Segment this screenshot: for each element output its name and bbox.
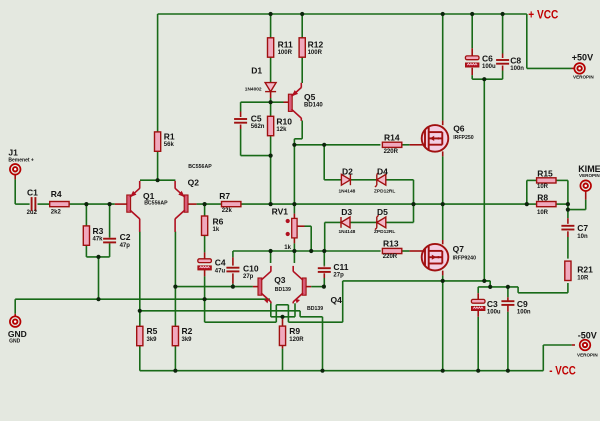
- svg-text:BD139: BD139: [307, 306, 323, 312]
- svg-text:100n: 100n: [510, 66, 524, 72]
- junction C5/R10: [269, 154, 273, 158]
- wire R3 bottom: [85, 245, 87, 257]
- wire -VCC rail: [140, 370, 544, 372]
- pin C9 top: [507, 297, 509, 301]
- svg-text:R11: R11: [278, 40, 293, 50]
- transistor Q3: [258, 266, 271, 304]
- wire to C2: [109, 204, 111, 238]
- svg-text:100n: 100n: [517, 310, 531, 316]
- wire +VCC to +50V: [526, 14, 528, 68]
- svg-text:10R: 10R: [537, 184, 549, 190]
- pin C6 bottom: [471, 68, 473, 75]
- wire Q1 collector / R5 column: [139, 232, 141, 328]
- pin C4 top: [204, 252, 206, 258]
- wire KIMENET up: [585, 200, 587, 210]
- wire R15-R8 left: [526, 180, 528, 204]
- resistor R8: [537, 202, 556, 207]
- capacitor C2: [103, 239, 116, 243]
- connector -50V (VEROPIN): [580, 340, 591, 351]
- wire C10 to base row: [232, 284, 234, 287]
- pin RV1 bottom: [293, 238, 295, 244]
- pin C10 top: [232, 257, 234, 265]
- wire to ground row: [98, 257, 100, 299]
- pin Q3 base: [253, 286, 258, 288]
- transistor Q5 (BD140): [288, 83, 301, 121]
- wire Q4 emitter down: [294, 303, 296, 317]
- connector J1 (VEROPIN): [10, 164, 21, 175]
- wire up to source row: [342, 281, 344, 322]
- svg-text:47p: 47p: [120, 243, 131, 249]
- pin C11 top: [323, 265, 325, 268]
- junction C3/-VCC: [476, 369, 480, 373]
- wire jog down: [489, 281, 491, 287]
- resistor R3: [83, 226, 89, 245]
- wire to R6: [204, 204, 206, 216]
- svg-text:C10: C10: [243, 264, 259, 274]
- wire jog: [517, 287, 519, 293]
- svg-text:C3: C3: [487, 299, 498, 309]
- pin KIMENET: [585, 191, 587, 200]
- junction ground/R3C2: [96, 297, 100, 301]
- pin Q6 drain: [442, 121, 444, 126]
- svg-text:R14: R14: [384, 132, 400, 142]
- wire down to -VCC row: [322, 317, 324, 371]
- wire C11 to Q4 base: [323, 278, 325, 287]
- svg-text:Q7: Q7: [453, 244, 465, 254]
- resistor R7: [222, 202, 241, 207]
- svg-text:3k9: 3k9: [182, 337, 193, 343]
- wire R6 to C4: [204, 235, 206, 252]
- junction R2/-VCC: [173, 369, 177, 373]
- svg-text:RV1: RV1: [272, 207, 289, 217]
- wire D2 to D4: [350, 179, 377, 181]
- capacitor C10: [226, 268, 239, 272]
- wire D5 to vertical: [386, 221, 414, 223]
- junction gate row D2 branch: [322, 143, 326, 147]
- pin -50V: [572, 344, 575, 346]
- wire C7 to R21: [567, 237, 569, 259]
- wire J1 down: [14, 179, 16, 204]
- diode D3: [341, 217, 350, 228]
- resistor R5: [137, 326, 143, 345]
- junction Q4 collector row: [292, 249, 296, 253]
- wire C6-C8 bottom: [472, 78, 502, 80]
- wire C5 bottom: [240, 129, 242, 156]
- svg-text:GND: GND: [8, 329, 27, 339]
- wire node A to R10: [270, 102, 272, 116]
- wire to +50V pin: [527, 67, 572, 69]
- wire Q3 base row: [175, 286, 253, 288]
- svg-text:220R: 220R: [384, 149, 399, 155]
- svg-text:1k: 1k: [213, 227, 220, 233]
- wire R11 to D1: [270, 57, 272, 82]
- svg-text:R21: R21: [577, 265, 593, 275]
- resistor R6: [202, 216, 208, 235]
- capacitor C6 (electrolytic): [465, 56, 479, 67]
- junction Q3 collector row: [269, 249, 273, 253]
- junction Q6 drain/+VCC: [441, 12, 445, 16]
- capacitor C8: [496, 60, 509, 64]
- wire hop leg right: [287, 305, 289, 322]
- wire C8 bottom: [502, 71, 504, 80]
- svg-text:R4: R4: [51, 189, 62, 199]
- wire to C11: [323, 251, 325, 266]
- wire D3 cathode stub: [325, 221, 342, 223]
- pin J1: [14, 175, 16, 179]
- pin C8 bottom: [502, 66, 504, 71]
- svg-text:R15: R15: [537, 168, 553, 178]
- wire Q2 base to R7: [197, 203, 222, 205]
- junction R1 tail: [156, 178, 160, 182]
- junction wiper: [309, 249, 313, 253]
- wire R21 bottom up: [567, 283, 569, 293]
- wire C3/C9 row: [478, 286, 518, 288]
- transistor Q6 (IRFP250): [422, 125, 449, 152]
- pin Q6 gate: [410, 144, 423, 146]
- connector +50V (VEROPIN): [574, 63, 585, 74]
- pin RV1 top: [293, 214, 295, 219]
- capacitor C3 (electrolytic): [471, 299, 485, 310]
- connector GND (VEROPIN): [10, 316, 21, 327]
- wire Q7 source down: [442, 275, 444, 281]
- wire lower ground row right: [288, 321, 342, 323]
- svg-text:C9: C9: [517, 299, 528, 309]
- svg-text:R6: R6: [213, 216, 224, 226]
- svg-text:R8: R8: [537, 193, 548, 203]
- svg-text:3k9: 3k9: [147, 337, 158, 343]
- wire R10 to junction: [270, 136, 272, 156]
- svg-text:D1: D1: [251, 66, 262, 76]
- transistor Q1 (BC556AP): [127, 181, 140, 232]
- wire +VCC to R11: [270, 14, 272, 38]
- svg-text:BD139: BD139: [275, 287, 291, 293]
- junction Q7 source row: [441, 279, 445, 283]
- svg-text:1N4002: 1N4002: [245, 86, 262, 92]
- svg-text:+ VCC: + VCC: [528, 10, 558, 22]
- wire C2 bottom: [109, 243, 111, 257]
- wire -VCC to -50V: [542, 345, 544, 371]
- wire wiper down: [310, 226, 312, 251]
- wire D3 branch down: [324, 222, 326, 251]
- wire output row to RV1: [293, 204, 295, 214]
- junction C3 row: [488, 285, 492, 289]
- wire RV1 bottom to row: [293, 243, 295, 251]
- resistor R12: [299, 38, 305, 57]
- svg-text:-50V: -50V: [578, 330, 597, 340]
- svg-text:R13: R13: [383, 238, 399, 248]
- transistor Q7 (IRFP9240): [422, 244, 449, 271]
- wire output row: [241, 203, 527, 205]
- wire right column: [567, 180, 569, 218]
- junction R10 column/output: [269, 202, 273, 206]
- wire +VCC to R12: [301, 14, 303, 38]
- svg-text:27p: 27p: [243, 274, 254, 280]
- capacitor C5: [234, 119, 247, 123]
- svg-text:ZPD12RL: ZPD12RL: [374, 229, 395, 235]
- wire R12 to Q5 emitter: [301, 57, 303, 83]
- wire R4 to Q1 base: [68, 203, 115, 205]
- wire Q5 collector jog: [294, 138, 302, 140]
- resistor R1: [155, 132, 161, 151]
- svg-text:Q5: Q5: [304, 92, 316, 102]
- svg-text:J1: J1: [8, 148, 18, 158]
- diode D2: [341, 174, 350, 185]
- pin C10 bottom: [232, 273, 234, 283]
- resistor R13: [382, 248, 401, 253]
- wire R13 to Q7 gate: [402, 250, 410, 252]
- wire ground down: [204, 299, 206, 322]
- pin Q5 base: [284, 101, 289, 103]
- transistor Q4: [293, 266, 306, 304]
- svg-text:R9: R9: [289, 326, 300, 336]
- junction C11/D3: [322, 249, 326, 253]
- wire R3-C2 join: [86, 256, 109, 258]
- pin C7 bottom: [567, 231, 569, 237]
- wire to D2 anode: [324, 179, 342, 181]
- resistor R14: [382, 142, 401, 147]
- junction C6-C8 mid: [482, 77, 486, 81]
- wire Q3 emitter down: [270, 303, 272, 317]
- svg-text:D3: D3: [341, 207, 352, 217]
- wire jog down to gate row: [293, 139, 295, 145]
- wire Q1-Q2 emitters tail: [140, 179, 175, 181]
- junction RV1/output: [292, 202, 296, 206]
- wire Q4 base row: [311, 286, 324, 288]
- capacitor C4 (electrolytic): [198, 259, 212, 270]
- pin Q7 drain: [442, 240, 444, 244]
- wire hop top: [276, 304, 288, 306]
- diode D5: [375, 215, 386, 229]
- wire gate node to output row: [293, 145, 295, 204]
- connector KIMENET (VEROPIN): [580, 180, 591, 191]
- svg-text:1N4148: 1N4148: [339, 229, 356, 235]
- wire to R21 bottom: [518, 292, 568, 294]
- svg-text:1k: 1k: [284, 245, 291, 251]
- wire D3 to D5: [350, 221, 377, 223]
- svg-text:10R: 10R: [537, 210, 549, 216]
- junction C11/Q4 base: [322, 285, 326, 289]
- wire R8 right stub: [556, 203, 568, 205]
- svg-text:Q3: Q3: [274, 275, 286, 285]
- svg-text:R12: R12: [308, 40, 324, 50]
- pin Q6 source: [442, 151, 444, 156]
- svg-text:IRFP250: IRFP250: [453, 135, 474, 141]
- wire R15 left stub: [527, 179, 537, 181]
- svg-text:BC556AP: BC556AP: [188, 164, 212, 170]
- svg-text:R2: R2: [182, 326, 193, 336]
- wire gate drive row upper: [294, 144, 380, 146]
- wire wiper: [305, 225, 312, 227]
- wire +VCC to Q6 drain: [442, 14, 444, 121]
- resistor R21: [565, 261, 571, 280]
- resistor R2: [172, 326, 178, 345]
- wire +VCC to R1: [157, 14, 159, 132]
- junction R6: [203, 202, 207, 206]
- wire Q6 source to output: [442, 156, 444, 204]
- svg-text:BC556AP: BC556AP: [144, 201, 168, 207]
- svg-text:2k2: 2k2: [51, 209, 62, 215]
- transistor Q2 (BC556AP): [175, 181, 188, 232]
- junction R5 row: [138, 309, 142, 313]
- junction diode string/output: [411, 202, 415, 206]
- wire branch to D2: [323, 145, 325, 180]
- wire row to Q3 collector: [270, 251, 272, 263]
- svg-text:100R: 100R: [278, 50, 293, 56]
- resistor R9: [279, 326, 285, 345]
- wire D1 to node A: [270, 98, 272, 102]
- wire C9 to -VCC: [507, 312, 509, 371]
- pin C5 top: [240, 112, 242, 118]
- pin D1 cathode: [270, 92, 272, 98]
- wire step right: [300, 316, 322, 318]
- junction emitters/R9: [280, 315, 284, 319]
- junction gate row left: [292, 143, 296, 147]
- wire C4 to ground row: [204, 276, 206, 299]
- pin Q1 base: [115, 203, 127, 205]
- wire emitter join row: [271, 316, 295, 318]
- svg-text:VEROPIN: VEROPIN: [577, 353, 598, 358]
- wire lower ground row: [205, 321, 277, 323]
- svg-text:R10: R10: [276, 116, 292, 126]
- junction /-VCC: [320, 369, 324, 373]
- junction R11/+VCC: [269, 12, 273, 16]
- wire stub: [484, 280, 490, 282]
- resistor R10: [268, 116, 274, 135]
- pin C9 bottom: [507, 305, 509, 312]
- svg-text:C6: C6: [482, 54, 493, 64]
- wire C5 to R10 junction: [241, 155, 271, 157]
- wire R10 junction to output row: [270, 156, 272, 205]
- svg-text:1N4148: 1N4148: [339, 189, 356, 195]
- junction Q7/-VCC: [441, 369, 445, 373]
- wire Q5 collector down: [301, 121, 303, 139]
- junction Q6-Q7/output: [441, 202, 445, 206]
- wire C3 to -VCC: [477, 317, 479, 371]
- wire row to Q4 collector: [293, 251, 295, 263]
- wire R15 right stub: [556, 179, 568, 181]
- pin C3 bottom: [477, 311, 479, 317]
- junction C6/+VCC: [470, 12, 474, 16]
- pin C4 bottom: [204, 270, 206, 276]
- svg-text:R5: R5: [147, 326, 158, 336]
- capacitor C9: [501, 301, 514, 305]
- svg-text:Q1: Q1: [143, 191, 155, 201]
- wire R1 to tail: [157, 151, 159, 180]
- pin RV1 wiper: [297, 225, 305, 227]
- pin C3 top: [477, 293, 479, 299]
- wire +VCC to C6: [471, 14, 473, 48]
- svg-text:VEROPIN: VEROPIN: [573, 74, 594, 79]
- svg-text:120R: 120R: [289, 337, 304, 343]
- svg-text:100u: 100u: [487, 310, 501, 316]
- junction R3-C2: [96, 255, 100, 259]
- wire ground down: [14, 299, 16, 314]
- wire lower gate row: [233, 250, 381, 252]
- svg-text:10R: 10R: [577, 275, 589, 281]
- pin R9 bottom: [282, 345, 284, 349]
- svg-text:D2: D2: [342, 166, 353, 176]
- wire step down: [299, 311, 301, 317]
- pin R9 top: [282, 317, 284, 327]
- junction C9: [506, 285, 510, 289]
- svg-text:C11: C11: [333, 262, 348, 272]
- svg-text:C4: C4: [215, 258, 226, 268]
- wire to C5 top: [240, 102, 242, 111]
- svg-text:100R: 100R: [308, 50, 323, 56]
- svg-text:Q2: Q2: [188, 178, 200, 188]
- resistor R15: [537, 178, 556, 183]
- junction ground/C4: [203, 297, 207, 301]
- svg-text:Bemenet +: Bemenet +: [8, 158, 34, 164]
- junction C2: [108, 202, 112, 206]
- diode D4: [375, 173, 386, 187]
- wire R8 left stub: [527, 203, 537, 205]
- wire to C3: [477, 287, 479, 293]
- wire to R3: [85, 204, 87, 226]
- pin C7 top: [567, 218, 569, 224]
- svg-text:562n: 562n: [251, 124, 265, 130]
- svg-text:12k: 12k: [276, 127, 287, 133]
- svg-text:D4: D4: [377, 166, 388, 176]
- resistor R11: [268, 38, 274, 57]
- wire ground row: [15, 298, 270, 300]
- wire KIMENET row: [568, 209, 586, 211]
- junction R8 left: [525, 202, 529, 206]
- svg-text:ZPD12RL: ZPD12RL: [374, 189, 395, 195]
- svg-text:C8: C8: [510, 55, 521, 65]
- diode D1: [265, 83, 276, 92]
- junction R8 right: [566, 202, 570, 206]
- svg-text:C7: C7: [577, 223, 588, 233]
- pin Q2 base: [188, 203, 197, 205]
- pin Q4 base: [306, 286, 311, 288]
- svg-text:Q4: Q4: [331, 295, 343, 305]
- wire C1 to R4: [38, 203, 51, 205]
- junction KIMENET: [566, 208, 570, 212]
- svg-text:R7: R7: [219, 191, 230, 201]
- wire +VCC rail: [158, 13, 527, 15]
- svg-text:2u2: 2u2: [27, 210, 38, 216]
- svg-text:100u: 100u: [482, 64, 496, 70]
- wire D4 to vertical: [386, 179, 414, 181]
- capacitor C11: [318, 268, 331, 272]
- wire Q7 source to -VCC: [442, 281, 444, 371]
- svg-text:C2: C2: [120, 232, 131, 242]
- pin +50V: [572, 67, 575, 69]
- svg-text:Q6: Q6: [453, 124, 465, 134]
- junction mid vertical/source row: [482, 279, 486, 283]
- svg-text:22k: 22k: [222, 208, 233, 214]
- svg-text:47k: 47k: [93, 237, 104, 243]
- pin C6 top: [471, 48, 473, 56]
- wire R5 row: [140, 310, 300, 312]
- junction C9/-VCC: [506, 369, 510, 373]
- svg-text:R3: R3: [93, 226, 104, 236]
- wire J1 to C1: [15, 203, 29, 205]
- wire R5 bottom: [139, 345, 141, 371]
- svg-text:D5: D5: [377, 207, 388, 217]
- pin C8 top: [502, 54, 504, 59]
- capacitor C7: [561, 226, 574, 230]
- svg-text:10n: 10n: [577, 234, 588, 240]
- capacitor C1: [32, 197, 36, 211]
- pin Q7 gate: [410, 250, 423, 252]
- junction node A: [269, 100, 273, 104]
- wire to -50V pin: [543, 344, 572, 346]
- pin GND: [14, 314, 16, 316]
- svg-text:- VCC: - VCC: [549, 366, 576, 378]
- junction R3: [84, 202, 88, 206]
